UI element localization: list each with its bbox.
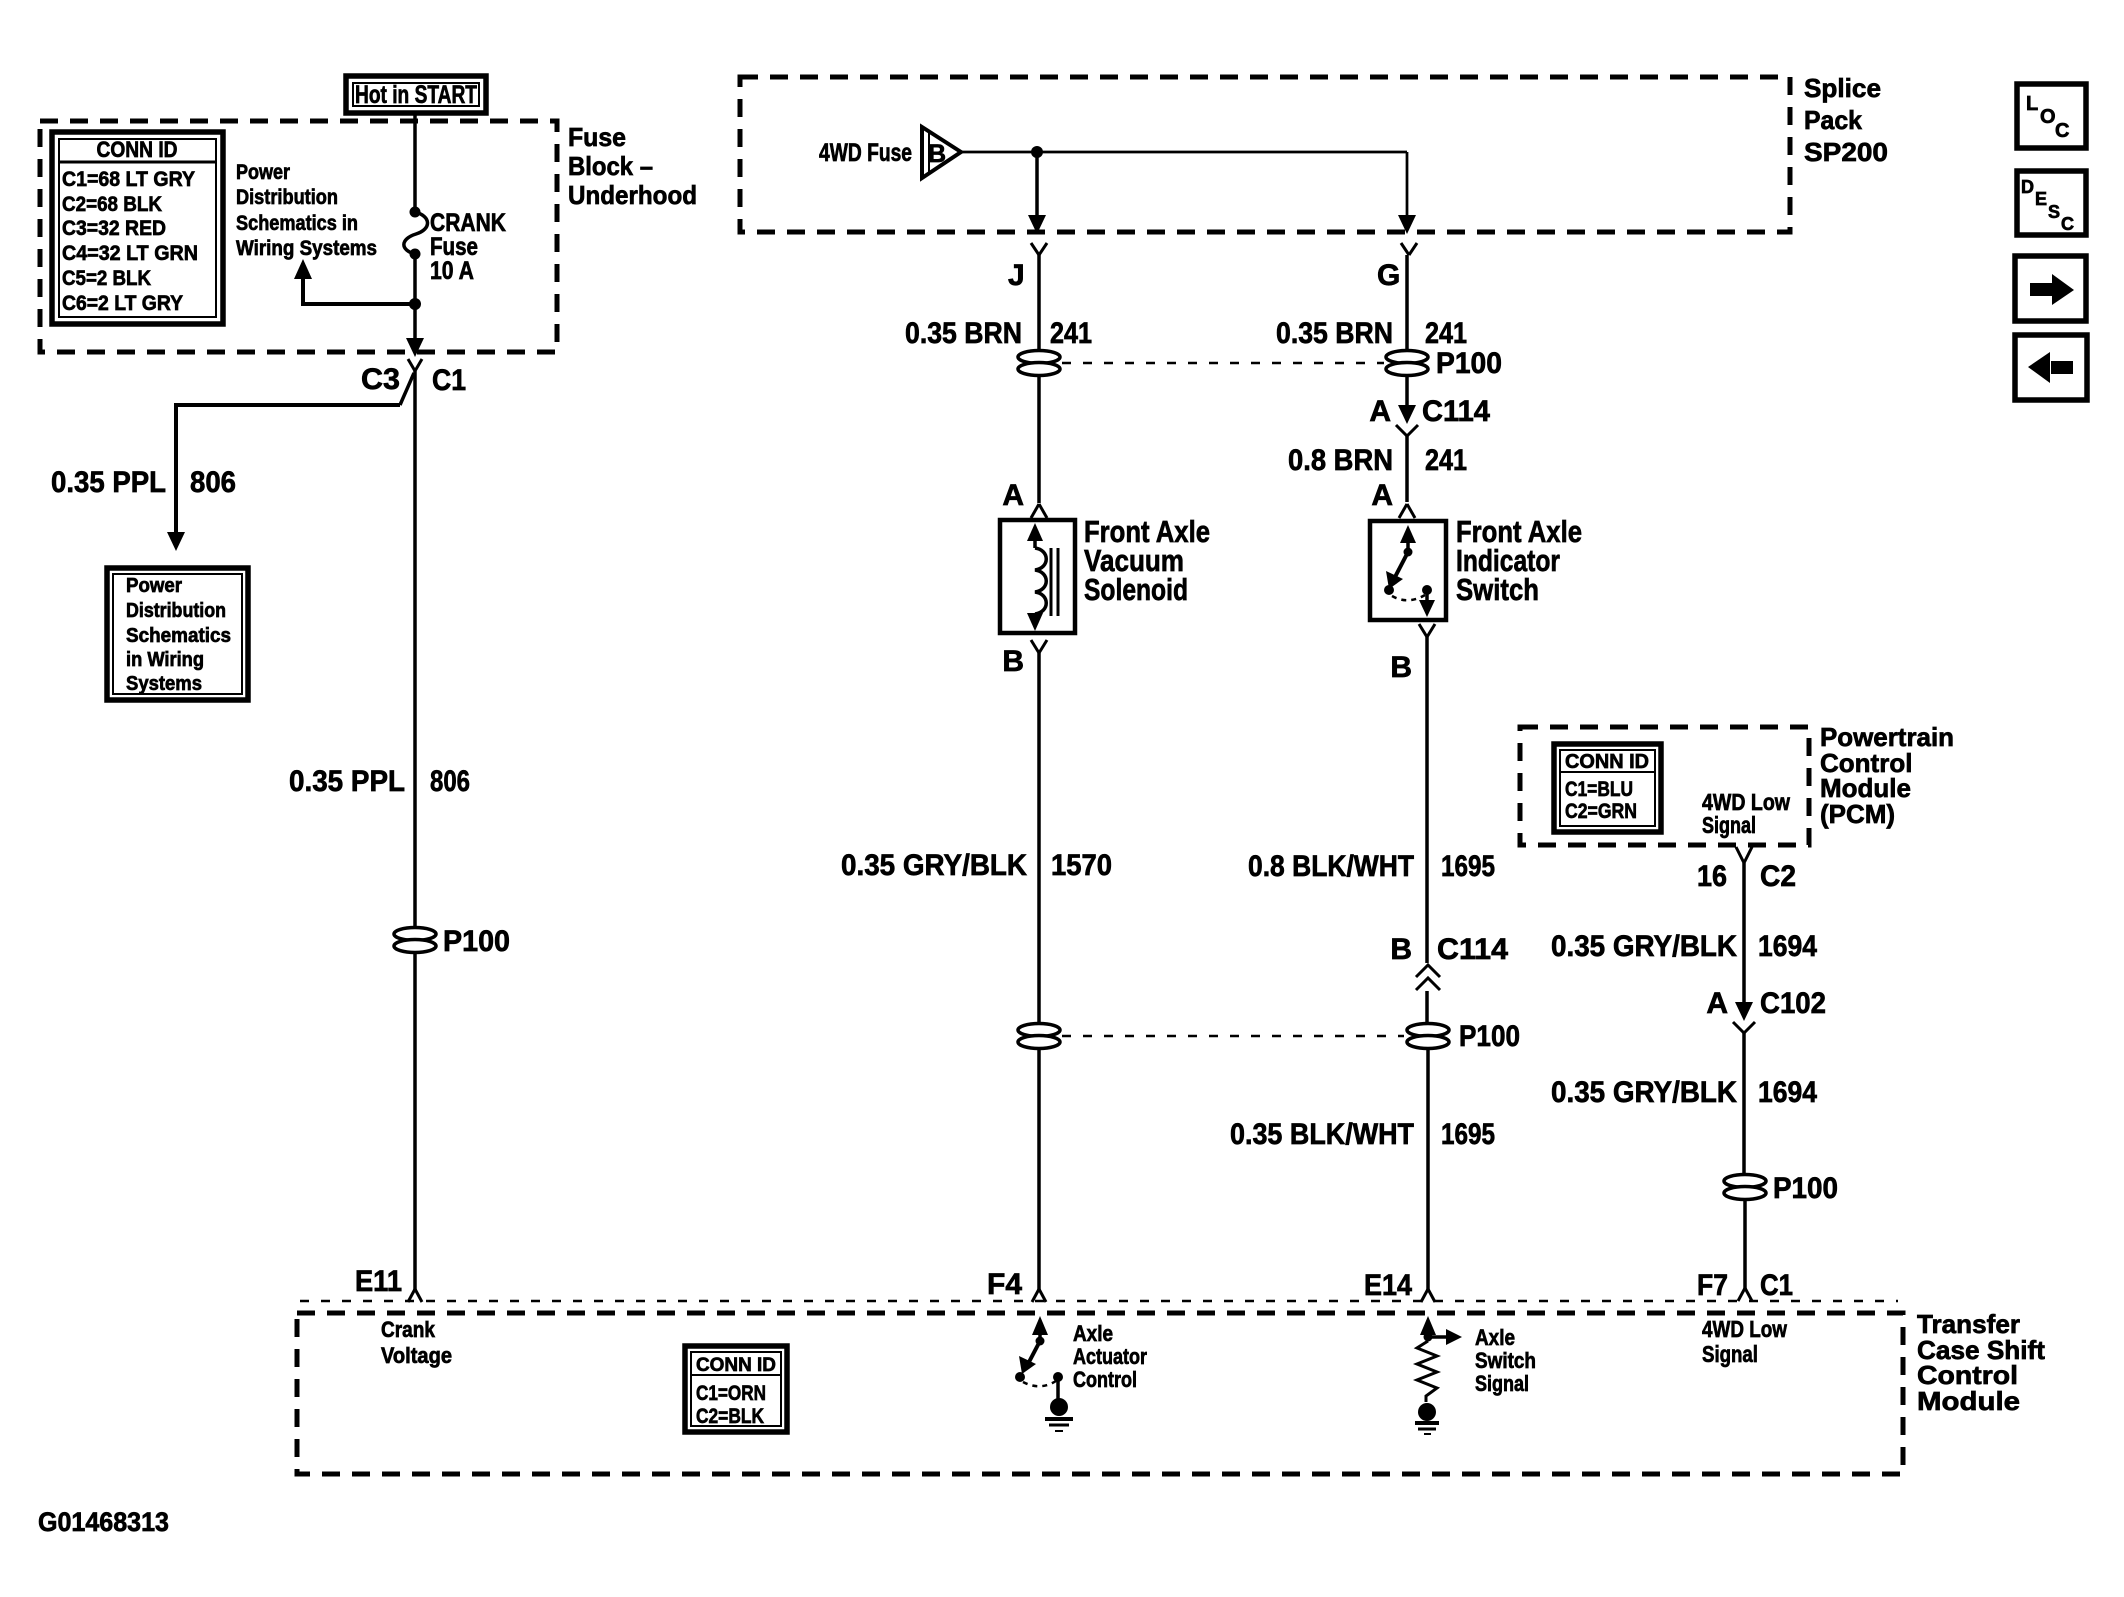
svg-text:C1=68 LT GRY: C1=68 LT GRY [62, 168, 195, 191]
svg-text:Voltage: Voltage [381, 1343, 452, 1368]
Fuse Block label [568, 122, 697, 210]
Powertrain Control Module dashed box [1520, 727, 1809, 845]
svg-text:C114: C114 [1422, 395, 1490, 428]
wire from Hot in START to CRANK fuse [410, 113, 421, 218]
Transfer Case label [1917, 1309, 2045, 1416]
svg-text:4WD Fuse: 4WD Fuse [819, 139, 912, 167]
4WD Fuse feed triangle B [819, 127, 961, 178]
svg-text:Wiring Systems: Wiring Systems [236, 237, 377, 260]
svg-text:241: 241 [1425, 444, 1467, 477]
svg-text:P100: P100 [1773, 1172, 1838, 1205]
svg-text:CONN ID: CONN ID [1565, 751, 1649, 773]
wire to F4 [987, 1048, 1046, 1302]
svg-text:0.35 BLK/WHT: 0.35 BLK/WHT [1230, 1118, 1414, 1151]
svg-text:A: A [1369, 395, 1391, 428]
svg-text:C5=2 BLK: C5=2 BLK [62, 267, 151, 290]
Transfer Case Shift Control Module dashed box [297, 1301, 1903, 1474]
wire J P100 to solenoid [1037, 375, 1041, 503]
wire solenoid B down : 0.35 GRY/BLK 1570 [841, 653, 1112, 1024]
svg-text:1570: 1570 [1051, 849, 1112, 882]
svg-text:Switch: Switch [1456, 572, 1539, 607]
svg-text:806: 806 [190, 466, 236, 499]
Hot in START label box [346, 76, 486, 113]
Crank Voltage label [381, 1317, 452, 1368]
inline connector P100 (right wire) [1724, 1172, 1838, 1205]
svg-text:1695: 1695 [1441, 1118, 1495, 1151]
svg-text:241: 241 [1425, 317, 1467, 350]
P100 grommet pair (upper) [1018, 347, 1502, 380]
wire 0.35 PPL 806 branch to reference box [51, 405, 400, 551]
svg-text:0.8 BRN: 0.8 BRN [1288, 444, 1393, 477]
svg-text:C3: C3 [361, 363, 400, 396]
svg-text:Fuse: Fuse [568, 122, 626, 152]
Power Distribution note (fuse block) [236, 161, 377, 260]
svg-text:Schematics: Schematics [126, 625, 231, 647]
switch pin A [1371, 479, 1415, 518]
Axle Actuator Control label [1073, 1321, 1147, 1392]
svg-text:C4=32 LT GRN: C4=32 LT GRN [62, 242, 198, 265]
svg-text:E: E [2035, 189, 2047, 209]
Fuse Block - Underhood dashed box [40, 121, 557, 352]
pin G connector [1377, 243, 1417, 292]
wire J to P100 : 0.35 BRN 241 [905, 255, 1092, 351]
LOC nav box [2017, 84, 2086, 148]
svg-text:Systems: Systems [126, 673, 202, 695]
svg-text:0.35 GRY/BLK: 0.35 GRY/BLK [841, 849, 1027, 882]
svg-text:C6=2 LT GRY: C6=2 LT GRY [62, 292, 183, 315]
wire PCM to C102 : 0.35 GRY/BLK 1694 [1551, 863, 1817, 1008]
svg-text:D: D [2021, 177, 2034, 197]
svg-text:Crank: Crank [381, 1317, 436, 1342]
svg-text:L: L [2026, 93, 2038, 115]
wire to E14 : 0.35 BLK/WHT 1695 [1230, 1048, 1495, 1302]
CONN ID table (PCM) [1554, 744, 1661, 832]
svg-text:F4: F4 [987, 1268, 1022, 1301]
drop to G [1398, 152, 1416, 234]
svg-text:0.35 PPL: 0.35 PPL [51, 466, 166, 499]
CONN ID table (fuse block) [52, 132, 223, 324]
svg-text:4WD Low: 4WD Low [1702, 1316, 1787, 1342]
svg-text:G01468313: G01468313 [38, 1507, 169, 1537]
PCM label [1820, 722, 1954, 829]
solenoid pin A [1002, 479, 1047, 518]
svg-text:Axle: Axle [1073, 1321, 1113, 1346]
svg-text:in Wiring: in Wiring [126, 649, 204, 671]
svg-text:Module: Module [1917, 1386, 2020, 1416]
svg-text:C2: C2 [1760, 860, 1796, 893]
4WD Low Signal label (PCM) [1702, 789, 1790, 838]
svg-text:10 A: 10 A [430, 257, 474, 285]
svg-text:Signal: Signal [1702, 812, 1756, 838]
svg-text:C2=BLK: C2=BLK [696, 1405, 764, 1428]
connector C102 pin A [1706, 987, 1826, 1033]
ground (axle actuator) [1045, 1398, 1073, 1431]
pin J connector [1008, 243, 1047, 292]
CRANK fuse 10 A [404, 209, 506, 285]
svg-text:(PCM): (PCM) [1820, 799, 1895, 829]
svg-text:0.35 GRY/BLK: 0.35 GRY/BLK [1551, 1076, 1737, 1109]
axle actuator control switch [1015, 1316, 1063, 1399]
svg-text:Power: Power [126, 575, 182, 597]
svg-text:Signal: Signal [1475, 1371, 1529, 1396]
solenoid pin B [1002, 640, 1047, 678]
svg-text:P100: P100 [443, 925, 510, 958]
svg-text:C1: C1 [432, 364, 466, 397]
svg-text:0.35 PPL: 0.35 PPL [289, 765, 405, 798]
svg-text:0.8 BLK/WHT: 0.8 BLK/WHT [1248, 850, 1414, 883]
svg-text:Power: Power [236, 161, 290, 184]
svg-text:Splice: Splice [1804, 73, 1881, 103]
inline connector P100 (left wire) [394, 925, 510, 958]
svg-text:1694: 1694 [1758, 1076, 1817, 1109]
wire C102 to P100 : 0.35 GRY/BLK 1694 [1551, 1033, 1817, 1175]
svg-text:A: A [1706, 987, 1728, 1020]
svg-text:C: C [2061, 214, 2074, 234]
svg-text:CONN ID: CONN ID [696, 1355, 776, 1376]
svg-text:B: B [928, 140, 946, 168]
main wire 0.35 PPL 806 [289, 371, 470, 928]
PCM pin 16 C2 [1697, 847, 1796, 893]
wire G to P100 : 0.35 BRN 241 [1276, 255, 1467, 351]
wire below fuse to module border [406, 254, 424, 357]
Axle Switch Signal label [1475, 1325, 1536, 1396]
svg-text:Control: Control [1073, 1367, 1137, 1392]
svg-text:Underhood: Underhood [568, 180, 697, 210]
connector C3 / C1 [361, 359, 466, 405]
svg-text:16: 16 [1697, 860, 1727, 893]
svg-text:C1: C1 [1760, 1269, 1793, 1302]
svg-text:Solenoid: Solenoid [1084, 572, 1188, 607]
svg-text:Pack: Pack [1804, 105, 1863, 135]
P100 grommet pair (lower) [1018, 1020, 1520, 1053]
svg-text:P100: P100 [1459, 1020, 1520, 1053]
wire P100 to E11 [355, 952, 422, 1302]
svg-text:0.35 GRY/BLK: 0.35 GRY/BLK [1551, 930, 1737, 963]
svg-text:C1=ORN: C1=ORN [696, 1382, 766, 1405]
svg-text:G: G [1377, 259, 1400, 292]
svg-text:O: O [2040, 106, 2056, 128]
wire switch B down : 0.8 BLK/WHT 1695 [1248, 637, 1495, 963]
svg-text:Signal: Signal [1702, 1341, 1758, 1367]
svg-text:C: C [2055, 120, 2069, 142]
Front Axle Indicator Switch [1370, 514, 1582, 620]
svg-text:Axle: Axle [1475, 1325, 1515, 1350]
branch arrow to Power Distribution reference [294, 259, 415, 304]
wire C114 to switch : 0.8 BRN 241 [1288, 436, 1467, 502]
svg-text:1695: 1695 [1441, 850, 1495, 883]
svg-text:E14: E14 [1364, 1269, 1412, 1302]
svg-text:Hot in START: Hot in START [355, 81, 477, 109]
svg-text:C114: C114 [1437, 933, 1508, 966]
left arrow nav box [2015, 335, 2087, 400]
svg-text:Actuator: Actuator [1073, 1344, 1147, 1369]
DESC nav box [2017, 171, 2086, 235]
4WD Low Signal label (transfer case) [1702, 1316, 1787, 1367]
svg-text:A: A [1371, 479, 1393, 512]
Splice Pack SP200 dashed box [740, 77, 1790, 232]
svg-text:J: J [1008, 259, 1025, 292]
Splice Pack label [1804, 73, 1888, 167]
svg-text:806: 806 [430, 765, 470, 798]
ground (axle switch) [1415, 1403, 1439, 1434]
svg-text:0.35 BRN: 0.35 BRN [1276, 317, 1393, 350]
svg-text:B: B [1002, 645, 1024, 678]
svg-text:Switch: Switch [1475, 1348, 1536, 1373]
svg-text:C1=BLU: C1=BLU [1565, 778, 1633, 801]
right arrow nav box [2015, 256, 2086, 321]
svg-text:CONN ID: CONN ID [97, 137, 178, 162]
svg-text:C3=32 RED: C3=32 RED [62, 217, 166, 240]
svg-text:C2=GRN: C2=GRN [1565, 800, 1637, 823]
svg-text:SP200: SP200 [1804, 137, 1888, 167]
svg-text:B: B [1390, 933, 1412, 966]
svg-text:E11: E11 [355, 1265, 402, 1298]
splice pack bus wire [961, 146, 1407, 158]
figure number G01468313 [38, 1507, 169, 1537]
axle switch signal resistor [1417, 1316, 1462, 1402]
svg-text:241: 241 [1050, 317, 1092, 350]
wire to F7 [1697, 1199, 1793, 1302]
svg-text:B: B [1390, 651, 1412, 684]
svg-text:Distribution: Distribution [126, 600, 226, 622]
switch pin B [1390, 624, 1435, 684]
Power Distribution Schematics reference box [107, 568, 248, 700]
svg-text:Schematics in: Schematics in [236, 212, 358, 235]
Front Axle Vacuum Solenoid [1000, 514, 1210, 633]
svg-text:A: A [1002, 479, 1024, 512]
connector C114 pin A [1369, 375, 1490, 436]
CONN ID table (transfer case) [685, 1346, 787, 1432]
svg-text:1694: 1694 [1758, 930, 1817, 963]
svg-text:C2=68 BLK: C2=68 BLK [62, 193, 162, 216]
svg-text:0.35 BRN: 0.35 BRN [905, 317, 1022, 350]
svg-text:P100: P100 [1436, 347, 1502, 380]
connector C114 pin B [1390, 933, 1508, 1024]
svg-text:F7: F7 [1697, 1269, 1728, 1302]
svg-text:C102: C102 [1760, 987, 1826, 1020]
drop to J [1028, 152, 1046, 234]
svg-text:S: S [2048, 202, 2060, 222]
svg-text:Block –: Block – [568, 151, 653, 181]
svg-text:Distribution: Distribution [236, 186, 338, 209]
